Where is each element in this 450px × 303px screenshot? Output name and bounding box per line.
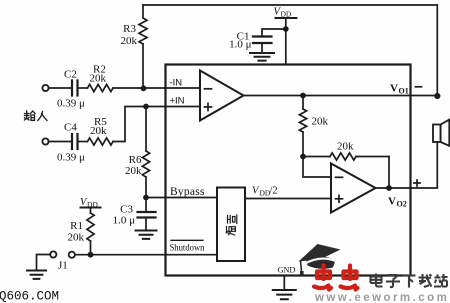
svg-text:1.0 μ: 1.0 μ [229,39,252,51]
VDD symbol top [274,7,297,30]
node A junction [141,85,147,91]
svg-text:GND: GND [278,265,296,275]
VDD symbol for R1 [80,197,101,213]
wire top rail from R3 top to right edge [143,5,437,96]
wire input top to C2 [49,87,72,89]
ground below C1 [250,53,274,61]
wire shutdown line [75,254,217,256]
ground below C3 [136,231,157,239]
input terminal bottom [42,138,48,144]
svg-text:Bypass: Bypass [170,186,205,198]
op-amp U1b [331,164,376,213]
svg-text:O1: O1 [399,87,409,96]
resistor 20k feedback [303,141,389,161]
resistor 20k internal vertical [299,96,328,157]
watermark 电子下载站 (drawn strokes) [371,274,448,288]
bias box [217,188,245,262]
svg-text:0.39 μ: 0.39 μ [57,98,85,110]
svg-text:Shutdown: Shutdown [170,244,205,254]
label Shutdown with overline [170,240,205,253]
svg-text:DD: DD [281,10,292,19]
svg-text:20k: 20k [68,232,85,244]
resistor R5 [88,116,114,145]
svg-text:20k: 20k [90,73,107,85]
label plus speaker [414,180,420,186]
watermark graduation cap [299,244,341,276]
svg-text:R3: R3 [123,23,136,35]
node VDD junction [283,26,289,32]
svg-text:C2: C2 [64,69,77,81]
label VO2 [388,196,407,209]
svg-text:O2: O2 [397,200,407,209]
node G junction VO2 [386,185,392,191]
svg-text:1.0 μ: 1.0 μ [113,215,136,227]
svg-text:V: V [390,83,398,95]
op-amp U1a [200,71,244,121]
label minus speaker [416,86,422,88]
wire R5 up to +IN line [113,107,200,142]
svg-text:-IN: -IN [170,78,183,89]
speaker [433,120,449,146]
IC box U1 [166,65,411,276]
svg-text:+IN: +IN [170,96,185,107]
svg-text:V: V [388,196,396,208]
node B junction on +IN [143,104,149,110]
wire VO2 line [376,142,438,188]
svg-text:/2: /2 [270,186,278,197]
wire J1 to ground [37,255,51,271]
label input 输入 (drawn strokes) [25,111,48,121]
svg-text:20k: 20k [125,165,142,177]
node D junction shutdown [88,252,94,258]
node E junction VO1 [300,93,306,99]
wire Bypass line [146,197,217,199]
label VO1 [390,83,409,96]
wire R2 to -IN node [113,87,200,89]
watermark 虫虫 red characters [314,266,358,290]
capacitor C2 [57,69,85,110]
wire input bottom to C4 [49,141,72,143]
svg-text:www.eeworm.com: www.eeworm.com [314,292,449,303]
input terminal top [42,85,48,91]
capacitor C3 [113,198,156,231]
svg-text:Q606.COM: Q606.COM [0,290,59,303]
svg-text:R1: R1 [70,220,83,232]
wire node F to op-amp U1b minus input [303,157,331,178]
ground at J1 [27,271,46,279]
node F junction feedback [300,154,306,160]
wire feedback down to VO2 [388,157,390,189]
svg-text:J1: J1 [58,260,68,272]
resistor R3 [121,5,148,89]
wire C4 to R5 [78,141,88,143]
wire GND stem [283,276,285,290]
node top-right junction [434,93,440,99]
svg-text:20k: 20k [90,125,107,137]
connector J1 [50,251,75,271]
svg-text:20k: 20k [312,116,329,128]
label 偏置 (drawn strokes, rotated) [226,215,237,235]
svg-text:20k: 20k [337,141,354,153]
svg-text:20k: 20k [121,35,138,47]
resistor R6 [125,107,150,198]
node C junction Bypass [143,195,149,201]
wire VO1 output line [244,95,438,97]
wire VDD/2 line to plus input [245,198,331,200]
label VDD/2 [252,186,278,198]
resistor R1 [68,213,95,255]
ground at GND pin [273,290,296,299]
svg-text:C4: C4 [64,122,77,134]
capacitor C4 [57,122,85,164]
resistor R2 [88,64,114,92]
svg-text:0.39 μ: 0.39 μ [57,152,85,164]
capacitor C1 [229,31,271,53]
wire VDD to IC top [285,29,287,65]
wire C2 to R2 [78,87,88,89]
svg-text:DD: DD [87,200,98,209]
wire VDD to C1 [262,29,286,36]
